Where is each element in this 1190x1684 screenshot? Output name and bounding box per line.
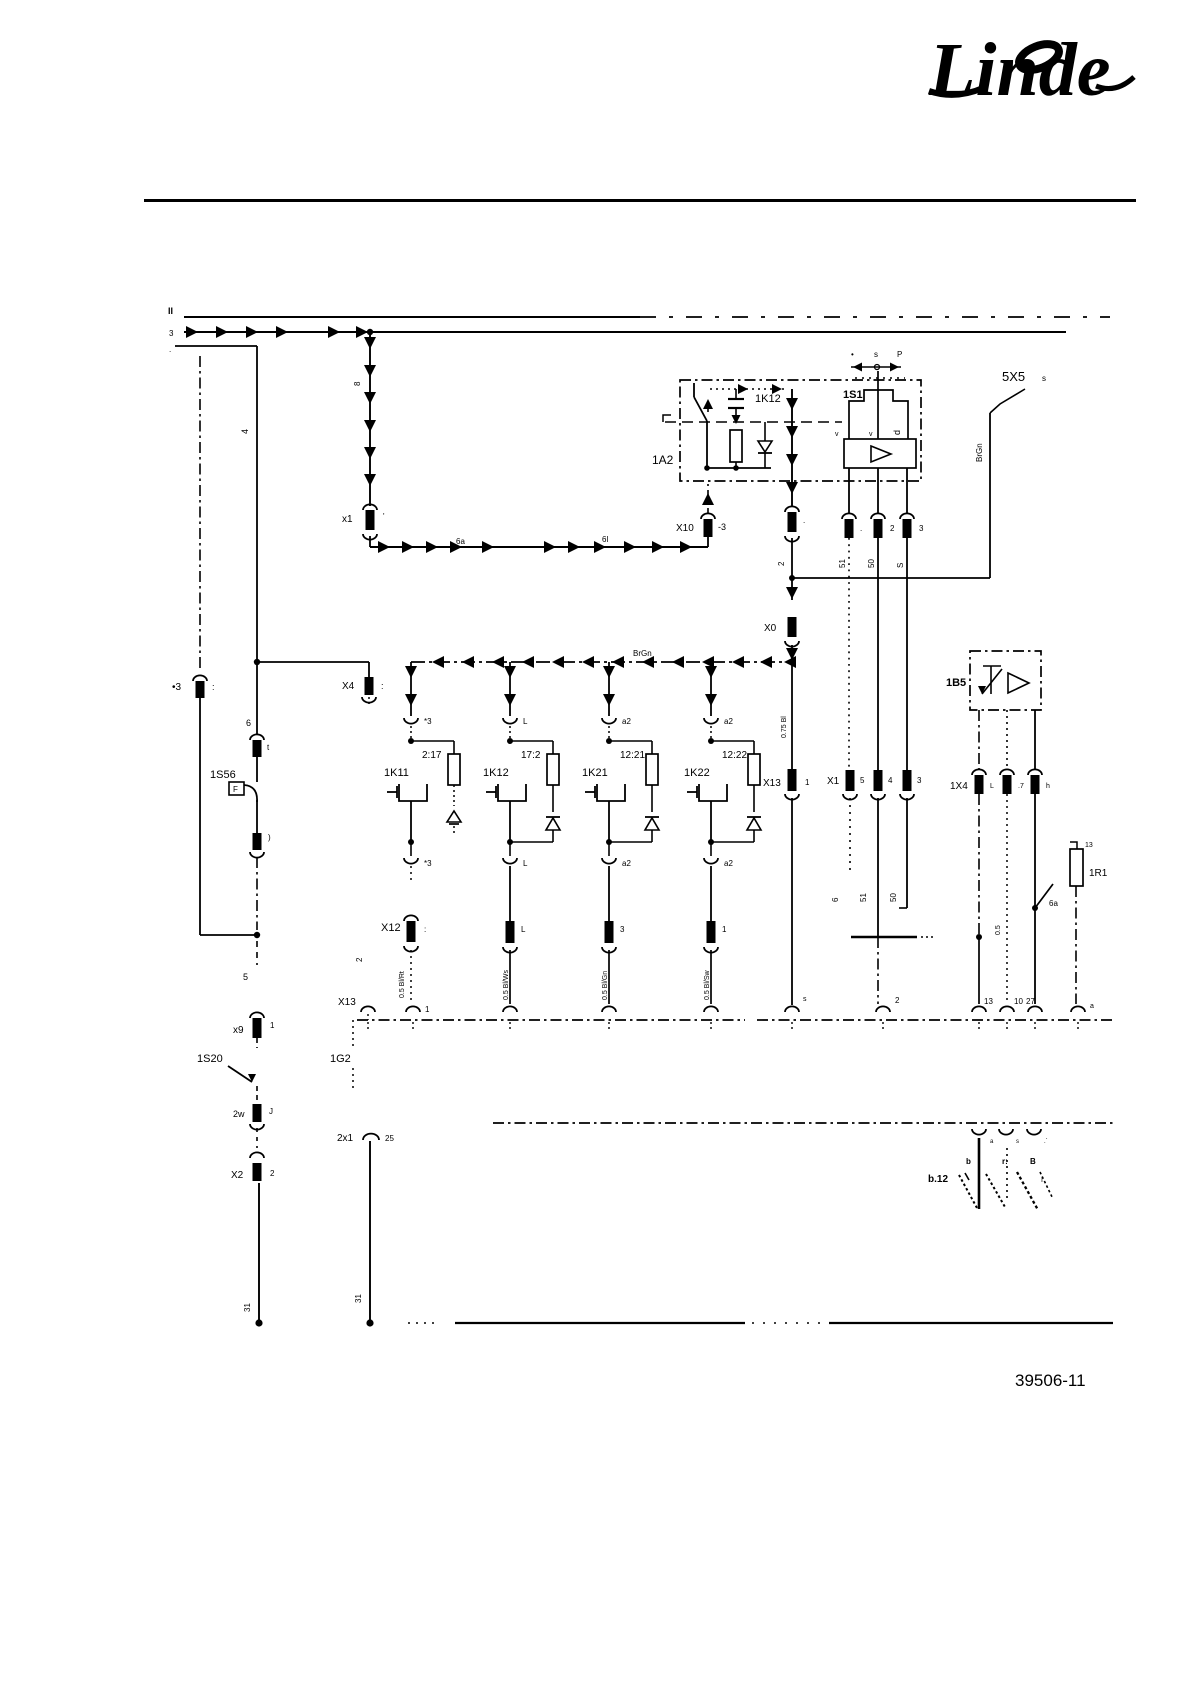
wire below battery [877,937,879,1004]
svg-text:s: s [1016,1139,1019,1145]
ground connector caps on rail [972,1129,986,1135]
svg-text:3: 3 [620,925,625,934]
svg-text:x9: x9 [233,1025,244,1036]
wire branch drop at x=411 [410,662,412,716]
svg-text:2: 2 [895,996,900,1005]
svg-text:4: 4 [888,776,893,785]
svg-text:1G2: 1G2 [330,1053,351,1065]
wire dotted below X12 [410,950,412,1004]
svg-text:X1: X1 [827,776,840,787]
wire dash-dot to junction [256,857,258,930]
svg-text:X0: X0 [764,623,777,634]
svg-text:x1: x1 [342,514,353,525]
svg-text:h: h [1046,783,1050,790]
svg-text:31: 31 [354,1294,363,1303]
header rule [144,199,1136,202]
connector at bus x=878 [876,1006,890,1012]
svg-text:5: 5 [243,972,248,982]
svg-text:.: . [803,516,805,525]
wire X1-4 to battery [877,798,879,936]
wire X1-3 [906,798,908,908]
svg-text:51: 51 [838,559,847,568]
wire dash arrow into 1A2 box [707,484,709,513]
mechanical dashed link [663,415,671,422]
svg-text:BrGn: BrGn [633,649,652,658]
svg-text:s: s [803,996,807,1003]
svg-text:6l: 6l [602,535,608,544]
svg-text:3: 3 [917,776,922,785]
wire horizontal to 5X5 riser [792,577,990,579]
svg-text:X10: X10 [676,523,694,534]
relay supply bus dash-dot with arrows [411,661,792,663]
resistor 2:17 lower symbol [453,785,455,806]
wire branch drop at x=510 [509,662,511,716]
svg-text:BrGn: BrGn [975,443,984,462]
svg-text:50: 50 [867,559,876,568]
svg-text:1: 1 [425,1005,430,1014]
svg-text:): ) [268,833,271,842]
wire branch 1 lower [710,866,712,921]
svg-text:•3: •3 [172,682,182,693]
svg-text:6: 6 [831,897,840,902]
bus line 1 terminal 30 [184,316,640,318]
diode suppressor [651,785,653,812]
bottom connector bus dash-dot [357,1019,745,1021]
svg-text:J: J [269,1107,273,1116]
module 1A2 dash-dot box [680,380,921,481]
connector plug bottom [602,858,616,864]
svg-text:*3: *3 [424,859,432,868]
wire dotted diag [368,697,370,704]
wire diagonal to 5X5 [990,389,1025,413]
connector [707,921,716,943]
svg-text:S: S [896,563,905,568]
svg-text:0.5 Bl/Rt: 0.5 Bl/Rt [399,971,406,998]
wire vertical arrow chain [369,332,371,506]
svg-text:.7: .7 [1018,783,1024,790]
svg-text:1S1: 1S1 [843,389,863,401]
svg-text:*3: *3 [424,717,432,726]
svg-text:a2: a2 [622,717,631,726]
wires to X1 row [848,538,850,772]
connector plug [404,718,418,724]
node branch top [408,738,414,744]
wire below junction dashes [256,941,258,965]
battery plate [851,936,917,939]
svg-text:3: 3 [169,329,174,338]
frame bottom dots [408,1322,440,1324]
frame bottom line left [455,1322,745,1324]
wire X3 down and to junction [199,698,201,935]
svg-text:F: F [233,785,238,794]
connector plug [704,718,718,724]
connector plug bottom [503,858,517,864]
svg-text::: : [212,682,215,692]
ground 1X12 left [978,1138,981,1209]
connector plug bottom [404,858,418,864]
svg-text:r:: r: [1002,1157,1008,1166]
connector X10 mid at x=792 [785,506,799,512]
svg-text:1S56: 1S56 [210,769,236,781]
svg-text:5: 5 [860,776,865,785]
wire branch drop at x=711 [710,662,712,716]
diode suppressor [753,785,755,812]
svg-text:L: L [990,783,994,790]
svg-text:1A2: 1A2 [652,453,674,467]
wire switch to connector [256,800,258,833]
connector row under 1S1 pins 1 2 3 [842,513,856,519]
wire X1-5 dotted [849,798,851,875]
svg-text:0.75 Bl: 0.75 Bl [781,716,788,738]
svg-text:X13: X13 [338,997,356,1008]
capacitor in 1A2 [735,389,737,399]
connector [605,921,614,943]
wire coil to node [608,801,610,842]
svg-text:2x1: 2x1 [337,1133,354,1144]
wire to bottom bus [791,798,793,1005]
svg-text:2: 2 [355,957,364,962]
connector X13 pin b [406,1006,420,1012]
wire dashes [256,1128,258,1148]
wire to junction [791,538,793,578]
wire dash-dot drop to X3 [199,356,201,672]
svg-text:0.5 Bl/Ws: 0.5 Bl/Ws [503,970,510,1000]
svg-text:2: 2 [777,561,786,566]
wire x=792 below bus [791,662,793,770]
connector fuse top [256,662,258,734]
wire riser x=990 [989,413,991,578]
svg-text:X2: X2 [231,1170,244,1181]
svg-text:1K11: 1K11 [384,767,409,779]
resistor 1R1 [1070,842,1077,849]
diode suppressor [552,785,554,812]
svg-text:6a: 6a [1049,899,1058,908]
svg-text:10: 10 [1014,997,1023,1006]
svg-text:13: 13 [984,997,993,1006]
wire run arrows [378,541,390,553]
connector at bus [503,1006,517,1012]
connector X13 pin a [361,1006,375,1012]
wire corner to horizontal run [369,536,371,547]
svg-text:50: 50 [889,893,898,902]
svg-text:B: B [1030,1157,1036,1166]
sensor symbol [983,665,1001,667]
wire bottom inside 1A2 [707,467,771,469]
svg-text:2:17: 2:17 [422,750,442,761]
svg-text:0.5: 0.5 [995,925,1002,935]
connector stubs below bus [367,1022,369,1032]
connector plug [503,718,517,724]
Linde logo L swash [929,88,983,95]
connector plug bottom [704,858,718,864]
resistor in 1A2 [730,430,742,462]
wire branch drop at x=609 [608,662,610,716]
svg-text:X12: X12 [381,922,401,934]
svg-text:17:2: 17:2 [521,750,541,761]
wire down from junction to X0 [791,578,793,600]
connector at bus [602,1006,616,1012]
node branch top [606,738,612,744]
svg-text:2: 2 [890,524,895,533]
wires 1S1 outputs [848,468,850,514]
wire down arrows at x=792 inside box [791,389,793,507]
wire up to X10 [707,537,709,547]
svg-text:0.5 Bl/Gn: 0.5 Bl/Gn [602,971,609,1000]
switch blade 6a [1035,884,1053,908]
bus line 3 stub [175,345,257,347]
svg-text:1R1: 1R1 [1089,868,1108,879]
svg-text:1: 1 [805,778,810,787]
svg-text:39506-11: 39506-11 [1015,1371,1086,1390]
wire junction to X4 [257,661,369,663]
svg-text:31: 31 [243,1303,252,1312]
svg-text:a2: a2 [622,859,631,868]
svg-text:.`: .` [1044,1139,1048,1145]
Linde logo [928,28,1111,112]
op-amp U1 box [844,439,916,468]
diode in 1A2 [764,422,766,441]
wire arrow to relay bus [791,645,793,662]
svg-text:3: 3 [919,524,924,533]
svg-text:1S20: 1S20 [197,1053,223,1065]
svg-text:12:22: 12:22 [722,750,747,761]
bus line 2 terminal 15 [184,331,1066,333]
switch inside 1A2 [693,383,695,397]
svg-text:P: P [897,350,902,359]
node bottom left [255,1319,262,1326]
ground rail dash-dot [493,1122,1113,1124]
node branch bottom [408,839,414,845]
svg-text:6: 6 [246,718,251,728]
wire branch 3 lower [608,866,610,921]
Linde logo d-loop swash [1015,39,1062,75]
node branch top [708,738,714,744]
svg-text:a2: a2 [724,859,733,868]
svg-text:.: . [169,345,171,354]
svg-text:2: 2 [270,1169,275,1178]
svg-text:1K21: 1K21 [582,767,608,779]
node [366,1319,373,1326]
frame bottom line right [829,1322,1113,1324]
connector plug [602,718,616,724]
wire 1G2 dotted [352,1020,354,1048]
svg-text:6a: 6a [456,537,465,546]
svg-text:0.5 Bl/Sw: 0.5 Bl/Sw [704,969,711,1000]
svg-text::: : [424,925,426,934]
wire coil to node [410,801,412,842]
svg-text:4: 4 [240,429,250,434]
svg-text:II: II [168,306,173,316]
node branch bottom [606,839,612,845]
connector below 1S56 [253,833,262,850]
svg-text:1X4: 1X4 [950,781,968,792]
sensor module 1B5 box [970,651,1041,710]
svg-text::: : [381,681,384,691]
svg-text:X13: X13 [763,778,781,789]
wire coil to node [509,801,511,842]
svg-text:8: 8 [353,381,362,386]
node branch bottom [507,839,513,845]
svg-text:v: v [869,431,873,438]
svg-text:2w: 2w [233,1109,245,1119]
wire 1B5-1 down [978,794,980,935]
svg-text:1K12: 1K12 [755,393,781,405]
Linde logo tail swash [1096,77,1134,89]
wire K11 to X12 [410,866,412,880]
node branch bottom [708,839,714,845]
svg-text:25: 25 [385,1134,394,1143]
svg-text:X4: X4 [342,681,355,692]
svg-text:•: • [851,350,854,359]
svg-text:L: L [523,859,528,868]
svg-text:5X5: 5X5 [1002,369,1025,384]
svg-text:1K12: 1K12 [483,767,509,779]
svg-text:13: 13 [1085,842,1093,849]
svg-text:a: a [1090,1003,1094,1010]
connector at bus [704,1006,718,1012]
wire coil to node [710,801,712,842]
svg-text:1: 1 [270,1021,275,1030]
svg-text:1K22: 1K22 [684,767,710,779]
svg-text:1: 1 [722,925,727,934]
svg-text:.: . [860,524,862,533]
wire vertical from bus3 corner [256,346,258,662]
bus 2 arrows [186,326,198,338]
node junction at bus for X4 [254,659,260,665]
wire 1B5-2 dotted down [1006,794,1008,1004]
svg-text:a2: a2 [724,717,733,726]
svg-text:d: d [892,430,902,435]
svg-text:v: v [835,431,839,438]
svg-text:-3: -3 [718,522,726,532]
amp triangle [1008,673,1029,693]
svg-text:L: L [521,925,526,934]
svg-text:51: 51 [859,893,868,902]
wires 1B5 outputs [978,710,980,770]
connector [506,921,515,943]
svg-text:s: s [874,350,878,359]
svg-text:27: 27 [1026,997,1035,1006]
svg-text:s: s [1042,374,1046,383]
node branch top [507,738,513,744]
node bus2 junction [367,329,373,335]
ground mid [1006,1148,1008,1201]
wire 1B5-3 down [1034,794,1036,908]
wire X2 to bottom node 31 [258,1183,260,1323]
wire dotted with arrows to right [710,388,788,390]
svg-text:b: b [966,1157,971,1166]
svg-text:b.12: b.12 [928,1174,948,1185]
wire branch L lower [509,866,511,921]
svg-text:1B5: 1B5 [946,677,966,689]
connector at bus 22 [1071,1006,1085,1012]
svg-text:L: L [523,717,528,726]
svg-text:12:21: 12:21 [620,750,645,761]
svg-text:I: I [1041,1177,1043,1184]
